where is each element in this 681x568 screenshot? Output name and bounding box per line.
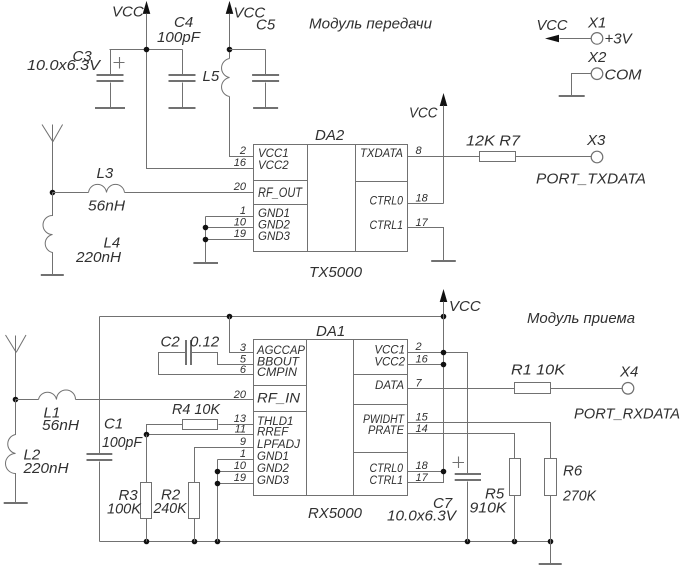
svg-text:LPFADJ: LPFADJ (257, 439, 300, 451)
svg-text:18: 18 (416, 460, 429, 472)
svg-text:100pF: 100pF (157, 29, 201, 46)
svg-text:12K R7: 12K R7 (466, 133, 521, 150)
svg-text:C2: C2 (161, 334, 181, 351)
svg-text:TX5000: TX5000 (309, 264, 363, 281)
svg-text:R4 10K: R4 10K (172, 401, 221, 418)
svg-text:PWIDHT: PWIDHT (363, 414, 405, 426)
svg-text:X2: X2 (587, 49, 607, 66)
svg-text:R1 10K: R1 10K (511, 362, 566, 379)
svg-text:RX5000: RX5000 (308, 505, 363, 522)
svg-text:15: 15 (416, 412, 429, 424)
svg-text:L3: L3 (97, 165, 114, 182)
svg-text:VCC1: VCC1 (374, 344, 405, 356)
svg-text:CMPIN: CMPIN (257, 367, 298, 379)
svg-text:X4: X4 (619, 364, 638, 381)
svg-text:RREF: RREF (257, 427, 289, 439)
svg-text:GND1: GND1 (257, 451, 289, 463)
svg-text:PRATE: PRATE (368, 425, 404, 437)
svg-text:VCC: VCC (537, 17, 568, 34)
svg-text:10.0x6.3V: 10.0x6.3V (387, 508, 458, 525)
svg-text:GND3: GND3 (258, 231, 291, 243)
svg-text:L5: L5 (203, 68, 220, 85)
svg-text:TXDATA: TXDATA (360, 148, 403, 160)
svg-text:0.12: 0.12 (190, 334, 220, 351)
svg-text:VCC2: VCC2 (374, 357, 405, 369)
svg-text:GND2: GND2 (257, 463, 290, 475)
svg-text:R6: R6 (563, 463, 583, 480)
svg-text:8: 8 (416, 145, 423, 157)
svg-text:2: 2 (415, 341, 422, 353)
svg-text:DATA: DATA (375, 380, 404, 392)
svg-text:VCC: VCC (409, 105, 438, 122)
svg-text:19: 19 (234, 472, 246, 484)
svg-text:GND1: GND1 (258, 208, 290, 220)
svg-text:CTRL0: CTRL0 (370, 463, 404, 475)
svg-text:16: 16 (416, 353, 429, 365)
svg-text:10: 10 (234, 217, 247, 229)
svg-text:100K: 100K (107, 501, 142, 518)
svg-text:100pF: 100pF (102, 434, 143, 451)
svg-text:270K: 270K (562, 488, 597, 505)
svg-text:17: 17 (416, 472, 429, 484)
svg-text:Модуль приема: Модуль приема (527, 310, 635, 327)
svg-text:56nH: 56nH (88, 198, 125, 215)
svg-text:C5: C5 (256, 17, 276, 34)
svg-text:910K: 910K (470, 500, 508, 517)
svg-text:PORT_RXDATA: PORT_RXDATA (574, 406, 680, 423)
svg-text:VCC: VCC (449, 298, 481, 315)
svg-text:3: 3 (240, 342, 247, 354)
svg-text:AGCCAP: AGCCAP (256, 345, 305, 357)
svg-text:6: 6 (240, 364, 247, 376)
svg-text:X1: X1 (587, 15, 606, 32)
svg-text:CTRL1: CTRL1 (370, 475, 404, 487)
svg-text:220nH: 220nH (75, 249, 121, 266)
svg-text:56nH: 56nH (42, 417, 79, 434)
svg-text:220nH: 220nH (22, 460, 68, 477)
svg-text:20: 20 (233, 181, 247, 193)
svg-text:11: 11 (235, 424, 246, 436)
svg-text:COM: COM (605, 67, 643, 84)
svg-text:240K: 240K (153, 500, 188, 517)
svg-text:VCC: VCC (112, 4, 144, 21)
svg-text:17: 17 (416, 217, 429, 229)
svg-text:Модуль передачи: Модуль передачи (309, 16, 433, 33)
svg-text:GND2: GND2 (258, 220, 291, 232)
svg-text:10: 10 (234, 460, 247, 472)
svg-text:RF_OUT: RF_OUT (258, 184, 303, 200)
svg-text:GND3: GND3 (257, 475, 290, 487)
svg-text:1: 1 (240, 448, 246, 460)
svg-text:DA1: DA1 (316, 323, 345, 340)
svg-text:18: 18 (416, 193, 429, 205)
svg-text:C1: C1 (104, 416, 123, 433)
svg-text:PORT_TXDATA: PORT_TXDATA (536, 171, 646, 188)
svg-text:CTRL0: CTRL0 (370, 195, 404, 207)
svg-text:+3V: +3V (605, 31, 634, 48)
svg-text:7: 7 (416, 377, 423, 389)
svg-text:20: 20 (233, 389, 247, 401)
svg-text:CTRL1: CTRL1 (370, 220, 404, 232)
svg-text:9: 9 (240, 436, 246, 448)
svg-text:14: 14 (416, 423, 428, 435)
svg-text:VCC1: VCC1 (258, 148, 289, 160)
svg-text:1: 1 (240, 205, 246, 217)
svg-text:19: 19 (234, 228, 246, 240)
svg-text:VCC2: VCC2 (258, 160, 289, 172)
svg-text:RF_IN: RF_IN (257, 390, 301, 406)
svg-text:16: 16 (234, 157, 247, 169)
svg-text:10.0x6.3V: 10.0x6.3V (27, 57, 102, 74)
svg-text:2: 2 (239, 145, 246, 157)
svg-text:DA2: DA2 (315, 127, 345, 144)
svg-text:X3: X3 (586, 132, 606, 149)
